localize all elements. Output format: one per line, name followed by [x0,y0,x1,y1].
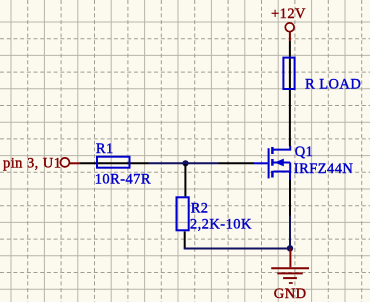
node junction dot at R2 tap [182,160,188,166]
wire junction down to R2 [184,164,186,196]
wire +12V to drain (black vertical) [289,41,291,147]
power port +12V circle [285,23,294,32]
wire R2 bottom to corner [184,232,186,249]
wire port to R1 and through to mid (black) [79,162,148,164]
bottom wire navy [185,248,290,249]
wire to gate black segment [219,162,255,164]
svg-text:Q1: Q1 [295,144,314,160]
Q1 channel contact bottom [271,171,274,178]
svg-text:R2: R2 [191,200,209,216]
port pin 3, U1 circle [60,158,69,167]
Q1 channel contact middle [271,159,274,166]
svg-text:10R-47R: 10R-47R [95,171,151,187]
port pin stub [70,162,79,164]
transistor Q1 gate bar [268,148,270,178]
resistor R1 body [97,157,130,168]
Q1 drain stub [274,146,291,150]
ground bar 1 [271,267,309,269]
ground pin stub [289,249,291,268]
resistor R LOAD body [283,58,294,89]
resistor R2 body [177,197,189,230]
power port +12V pin stub [289,32,291,41]
ground bar 2 [277,272,302,274]
svg-text:IRFZ44N: IRFZ44N [294,161,354,177]
svg-text:2,2K-10K: 2,2K-10K [190,217,252,233]
node junction dot at ground net [287,245,293,251]
Q1 channel contact top [271,147,274,154]
wire source down black part [289,180,291,216]
wire source down navy part [289,216,291,249]
svg-text:pin 3, U1: pin 3, U1 [3,155,61,171]
Q1 bulk arrow [275,159,284,167]
svg-text:+12V: +12V [271,6,306,22]
wire mid navy segment [149,162,219,164]
Q1 source stub [274,171,291,173]
svg-text:R1: R1 [96,141,114,157]
ground bar 4 [289,282,293,284]
svg-text:R LOAD: R LOAD [305,76,361,92]
ground bar 3 [283,277,297,279]
wire source down blue part [289,172,291,180]
Q1 bulk stub with arrow [274,162,291,164]
Q1 bulk-source vertical [289,163,291,173]
svg-text:GND: GND [274,286,307,302]
gate pin (blue) [254,162,268,164]
